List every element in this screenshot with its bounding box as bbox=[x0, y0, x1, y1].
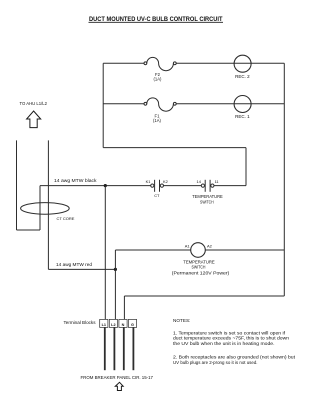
svg-text:UV bulb plugs are 2-prong so i: UV bulb plugs are 2-prong so it is not u… bbox=[173, 360, 258, 365]
wire: second rail left segment bbox=[103, 103, 144, 105]
wire: coil branch horizontal left of coil bbox=[115, 249, 190, 251]
wire: L1 drop to terminal bbox=[104, 186, 106, 320]
svg-text:NOTES:: NOTES: bbox=[173, 318, 190, 323]
svg-text:(1A): (1A) bbox=[154, 77, 163, 82]
wire: L2 drop to terminal bbox=[114, 269, 116, 319]
wire: bottom jog horizontal bbox=[17, 229, 41, 231]
wire: red supply vertical bbox=[47, 140, 49, 269]
wire: feed right vertical bbox=[245, 148, 247, 186]
notes text bbox=[173, 318, 296, 365]
wire: red horizontal to junction bbox=[48, 268, 115, 270]
label 14 awg MTW black bbox=[54, 178, 97, 183]
CT core ellipse bbox=[21, 203, 70, 215]
svg-text:the UV bulb when the unit is i: the UV bulb when the unit is in heating … bbox=[173, 341, 275, 346]
svg-text:1. Temperature switch is set: 1. Temperature switch is set so contact … bbox=[173, 330, 286, 335]
svg-text:TO AHU L1/L2: TO AHU L1/L2 bbox=[20, 101, 48, 106]
terminal block N bbox=[119, 319, 127, 327]
wire: coil branch up bbox=[114, 250, 116, 269]
svg-text:14 awg MTW red: 14 awg MTW red bbox=[56, 262, 93, 267]
fuse F1 bbox=[144, 98, 176, 123]
svg-text:A2: A2 bbox=[207, 243, 213, 248]
title bbox=[89, 16, 223, 23]
svg-text:2. Both receptacles are also: 2. Both receptacles are also grounded (n… bbox=[173, 355, 296, 360]
svg-text:K2: K2 bbox=[163, 179, 168, 184]
svg-text:TEMPERATURE: TEMPERATURE bbox=[183, 259, 215, 264]
label 14 awg MTW red bbox=[56, 262, 93, 267]
svg-text:CT CORE: CT CORE bbox=[57, 216, 75, 221]
wire: left supply vertical (black leg down) bbox=[16, 140, 18, 230]
svg-text:K1: K1 bbox=[146, 179, 151, 184]
svg-text:14 awg MTW black: 14 awg MTW black bbox=[54, 178, 97, 183]
label terminal blocks bbox=[64, 320, 97, 325]
arrow from breaker panel bbox=[115, 382, 123, 390]
svg-text:REC. 2: REC. 2 bbox=[235, 74, 250, 79]
receptacle REC. 2 bbox=[234, 55, 251, 79]
wire: breaker lead G bbox=[132, 327, 134, 370]
svg-text:N: N bbox=[122, 323, 125, 327]
wire: control rung left segment bbox=[40, 185, 151, 187]
svg-text:REC. 1: REC. 1 bbox=[235, 114, 250, 119]
junction dot L2 tap bbox=[114, 268, 117, 271]
wire: breaker lead L2 bbox=[113, 327, 115, 370]
coil temperature switch A1 A2 bbox=[172, 243, 230, 276]
svg-text:SWITCH: SWITCH bbox=[200, 200, 214, 205]
fuse F2 bbox=[144, 57, 176, 81]
wire: neutral bottom horizontal bbox=[124, 295, 284, 297]
wire: control rung middle segment bbox=[164, 185, 202, 187]
wire: loop left vertical bbox=[102, 63, 104, 147]
svg-text:14: 14 bbox=[197, 179, 202, 184]
contact temperature switch (14 11) bbox=[192, 179, 223, 204]
junction dot L1 tap bbox=[104, 184, 107, 187]
wire: feed horizontal to control rung bbox=[103, 147, 246, 149]
contact CT (K1 K2) bbox=[146, 179, 168, 198]
label from breaker panel bbox=[81, 375, 154, 380]
svg-text:G: G bbox=[131, 323, 134, 327]
wire: control rung right segment bbox=[214, 185, 246, 187]
svg-text:A1: A1 bbox=[185, 243, 191, 248]
svg-text:duct temperature exceeds ~75F,: duct temperature exceeds ~75F, this is t… bbox=[173, 336, 289, 341]
terminal block G bbox=[128, 319, 136, 327]
svg-text:Terminal Blocks: Terminal Blocks bbox=[64, 320, 97, 325]
title underline bbox=[89, 21, 224, 23]
svg-text:(Permanent 120V Power): (Permanent 120V Power) bbox=[172, 271, 230, 276]
wire: breaker lead L1 bbox=[104, 327, 106, 370]
wire: neutral drop to N terminal bbox=[123, 296, 125, 319]
wire: top rail right segment bbox=[176, 62, 284, 64]
wire: second rail right segment bbox=[176, 103, 284, 105]
svg-text:FROM BREAKER PANEL CIR. 15-17: FROM BREAKER PANEL CIR. 15-17 bbox=[81, 375, 154, 380]
svg-text:SWITCH: SWITCH bbox=[192, 265, 206, 270]
receptacle REC. 1 bbox=[234, 96, 251, 120]
svg-text:11: 11 bbox=[215, 179, 219, 184]
wire: top rail left segment bbox=[103, 62, 144, 64]
svg-text:DUCT MOUNTED UV-C BULB CONTROL: DUCT MOUNTED UV-C BULB CONTROL CIRCUIT bbox=[89, 16, 223, 23]
terminal block L1 bbox=[100, 319, 108, 327]
arrow to AHU bbox=[27, 111, 41, 128]
svg-text:(1A): (1A) bbox=[153, 118, 162, 123]
wire: coil branch horizontal right of coil bbox=[205, 249, 284, 251]
terminal block L2 bbox=[109, 319, 117, 327]
node TO AHU arrow label bbox=[20, 101, 48, 106]
svg-text:L1: L1 bbox=[102, 323, 106, 327]
wire: jog vertical up to control rung bbox=[39, 186, 41, 230]
svg-text:L2: L2 bbox=[111, 323, 115, 327]
wire: loop right vertical (neutral drop) bbox=[283, 63, 285, 296]
svg-text:CT: CT bbox=[154, 193, 160, 198]
svg-text:TEMPERATURE: TEMPERATURE bbox=[192, 194, 223, 199]
wire: breaker lead N bbox=[123, 327, 125, 370]
